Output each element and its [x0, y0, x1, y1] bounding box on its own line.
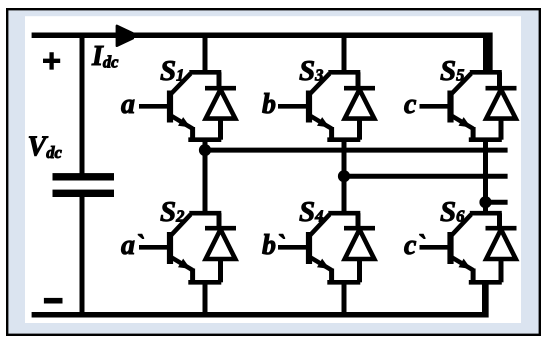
transistor S5 (IGBT switch)	[448, 74, 473, 140]
minus terminal of DC source	[44, 298, 62, 303]
freewheeling diode of S1	[205, 72, 236, 139]
wire: S4 emitter to DC- bus	[342, 282, 347, 317]
svg-text:c`: c`	[404, 230, 426, 261]
wire: capacitor branch lower lead	[80, 196, 85, 317]
emitter bracket wire of S6	[469, 280, 502, 285]
collector bracket wire of S1	[189, 70, 221, 75]
svg-text:c: c	[404, 89, 417, 120]
svg-text:b: b	[262, 89, 276, 120]
gate lead wire of S1	[139, 104, 170, 109]
freewheeling diode of S4	[344, 213, 375, 282]
emitter bracket wire of S4	[327, 280, 360, 285]
collector bracket wire of S5	[470, 70, 502, 75]
wire: capacitor branch upper lead	[80, 33, 85, 174]
wire: S1 collector feed from DC+ bus	[203, 33, 208, 72]
emitter bracket wire of S2	[188, 280, 221, 285]
dc-link capacitor	[53, 174, 114, 180]
wire: phase a output line	[205, 148, 508, 153]
plus terminal of DC source	[43, 52, 60, 69]
wire: S5 emitter down across phase a and b lines to node c	[483, 140, 488, 203]
wire: S1 emitter to node a junction	[203, 140, 208, 152]
wire: S3 emitter down across phase a line to node b	[342, 140, 347, 177]
freewheeling diode of S2	[205, 213, 236, 282]
emitter arrowhead of S4	[318, 260, 329, 269]
emitter arrowhead of S5	[459, 118, 470, 127]
wire: S6 emitter to DC- bus	[482, 283, 487, 315]
wire: S5 collector feed from DC+ bus	[483, 36, 488, 72]
gate lead wire of S4	[278, 245, 309, 250]
gate lead wire of S2	[139, 245, 170, 250]
emitter bracket wire of S5	[469, 137, 502, 142]
collector bracket wire of S4	[328, 211, 360, 216]
emitter arrowhead of S2	[179, 260, 190, 269]
wire: node c down to S6 collector	[483, 202, 488, 213]
node c (phase c output junction)	[480, 197, 491, 208]
wire: S3 collector feed from DC+ bus	[342, 33, 347, 72]
emitter arrowhead of S1	[179, 118, 190, 127]
wire: positive DC bus (top rail)	[32, 35, 490, 71]
collector bracket wire of S2	[189, 211, 221, 216]
svg-text:a`: a`	[121, 230, 144, 261]
gate lead wire of S5	[420, 104, 451, 109]
wire: node a down to S2 collector	[203, 150, 208, 213]
emitter arrowhead of S3	[318, 118, 329, 127]
svg-text:a: a	[121, 89, 135, 120]
emitter bracket wire of S1	[188, 137, 221, 142]
current arrow Idc	[117, 26, 133, 46]
freewheeling diode of S5	[486, 72, 517, 139]
transistor S6 (IGBT switch)	[448, 214, 473, 282]
node a (phase a output junction)	[199, 145, 210, 156]
wire: phase c output line	[486, 200, 508, 205]
node b (phase b output junction)	[338, 171, 349, 182]
transistor S2 (IGBT switch)	[167, 214, 192, 282]
freewheeling diode of S6	[486, 213, 517, 282]
gate lead wire of S3	[278, 104, 309, 109]
collector bracket wire of S3	[328, 70, 360, 75]
collector bracket wire of S6	[470, 211, 502, 216]
svg-text:b`: b`	[262, 230, 285, 261]
transistor S3 (IGBT switch)	[306, 74, 331, 140]
emitter arrowhead of S6	[459, 260, 470, 269]
wire: node b down to S4 collector	[342, 176, 347, 213]
wire: phase b output line	[344, 174, 508, 179]
freewheeling diode of S3	[344, 72, 375, 139]
gate lead wire of S6	[420, 245, 451, 250]
transistor S4 (IGBT switch)	[306, 214, 331, 282]
wire: S2 emitter to DC- bus	[203, 282, 208, 317]
wire: negative DC bus (bottom rail)	[32, 283, 486, 315]
transistor S1 (IGBT switch)	[167, 74, 192, 140]
emitter bracket wire of S3	[327, 137, 360, 142]
